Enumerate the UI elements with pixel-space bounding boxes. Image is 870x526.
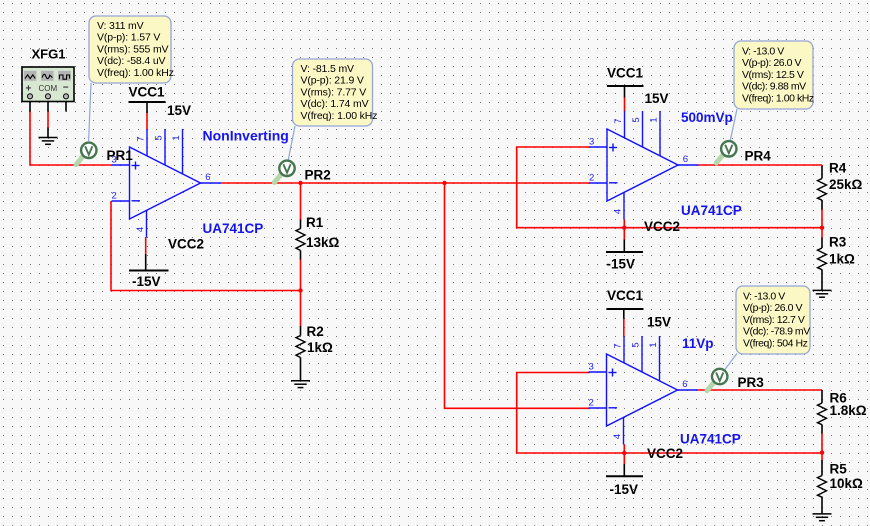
- svg-text:-15V: -15V: [132, 274, 161, 289]
- svg-text:15V: 15V: [645, 91, 669, 106]
- svg-text:V(dc): 1.74 mV: V(dc): 1.74 mV: [301, 98, 369, 110]
- svg-text:13kΩ: 13kΩ: [306, 235, 340, 250]
- svg-text:R1: R1: [306, 215, 324, 230]
- svg-text:V: 311 mV: V: 311 mV: [97, 20, 144, 32]
- svg-text:V: -13.0 V: V: -13.0 V: [743, 291, 785, 303]
- svg-text:11Vp: 11Vp: [682, 336, 714, 351]
- svg-text:V(rms): 7.77 V: V(rms): 7.77 V: [301, 86, 367, 98]
- svg-text:V(dc): -58.4 uV: V(dc): -58.4 uV: [97, 55, 166, 67]
- svg-text:V(freq): 1.00 kHz: V(freq): 1.00 kHz: [97, 67, 174, 79]
- svg-text:15V: 15V: [167, 103, 191, 118]
- svg-text:V(rms): 555 mV: V(rms): 555 mV: [97, 43, 169, 55]
- svg-text:R4: R4: [829, 161, 847, 176]
- svg-text:V: -81.5 mV: V: -81.5 mV: [301, 63, 355, 75]
- svg-text:UA741CP: UA741CP: [680, 432, 741, 447]
- svg-text:15V: 15V: [647, 315, 671, 330]
- svg-text:V(p-p): 26.0 V: V(p-p): 26.0 V: [742, 57, 802, 69]
- svg-text:VCC1: VCC1: [129, 85, 166, 100]
- svg-text:V(p-p): 21.9 V: V(p-p): 21.9 V: [301, 75, 364, 87]
- svg-text:V(p-p): 1.57 V: V(p-p): 1.57 V: [97, 32, 160, 44]
- svg-text:V(dc): 9.88 mV: V(dc): 9.88 mV: [742, 81, 806, 93]
- svg-text:UA741CP: UA741CP: [203, 221, 264, 236]
- svg-text:1kΩ: 1kΩ: [829, 252, 855, 267]
- svg-text:R2: R2: [307, 324, 324, 339]
- svg-text:500mVp: 500mVp: [681, 110, 733, 125]
- svg-text:PR3: PR3: [738, 375, 765, 390]
- svg-text:-15V: -15V: [607, 257, 636, 272]
- svg-text:V(rms): 12.7 V: V(rms): 12.7 V: [743, 314, 805, 326]
- svg-text:1kΩ: 1kΩ: [307, 340, 333, 355]
- svg-text:COM: COM: [39, 84, 58, 93]
- svg-text:XFG1: XFG1: [32, 47, 66, 62]
- svg-text:V(freq): 1.00 kHz: V(freq): 1.00 kHz: [742, 92, 814, 104]
- svg-text:PR2: PR2: [305, 168, 331, 183]
- svg-text:V(freq): 504 Hz: V(freq): 504 Hz: [743, 337, 808, 349]
- svg-text:PR1: PR1: [107, 148, 134, 163]
- svg-text:1.8kΩ: 1.8kΩ: [830, 403, 867, 418]
- svg-text:V(p-p): 26.0 V: V(p-p): 26.0 V: [743, 302, 803, 314]
- svg-text:NonInverting: NonInverting: [203, 128, 289, 144]
- svg-text:V: -13.0 V: V: -13.0 V: [742, 46, 784, 58]
- svg-text:-15V: -15V: [610, 482, 639, 497]
- svg-text:VCC2: VCC2: [644, 219, 680, 234]
- svg-text:10kΩ: 10kΩ: [830, 476, 864, 491]
- svg-text:25kΩ: 25kΩ: [829, 177, 863, 192]
- svg-text:UA741CP: UA741CP: [681, 203, 742, 218]
- svg-text:+: +: [26, 84, 32, 95]
- svg-text:R5: R5: [830, 462, 848, 477]
- svg-text:−: −: [63, 83, 69, 94]
- svg-text:VCC1: VCC1: [607, 288, 644, 303]
- svg-text:R3: R3: [829, 235, 847, 250]
- svg-text:V(dc): -78.9 mV: V(dc): -78.9 mV: [743, 326, 810, 338]
- svg-text:VCC1: VCC1: [607, 66, 644, 81]
- svg-text:VCC2: VCC2: [168, 237, 204, 252]
- svg-text:PR4: PR4: [745, 149, 772, 164]
- svg-text:VCC2: VCC2: [647, 446, 683, 461]
- svg-text:V(freq): 1.00 kHz: V(freq): 1.00 kHz: [301, 110, 378, 122]
- svg-text:V(rms): 12.5 V: V(rms): 12.5 V: [742, 69, 804, 81]
